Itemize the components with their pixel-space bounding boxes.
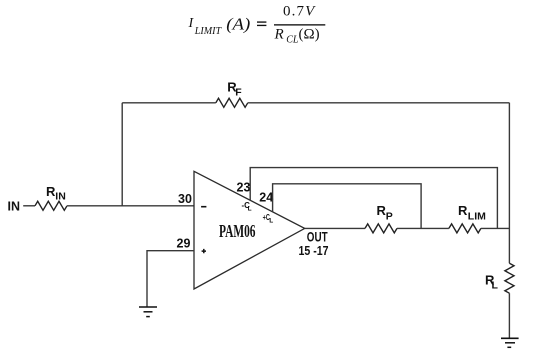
svg-text:L: L — [248, 205, 252, 212]
wire R_IN to inverting input (pin 30) — [67, 205, 194, 207]
svg-text:24: 24 — [259, 191, 273, 205]
svg-text:(A): (A) — [226, 15, 250, 34]
svg-text:15 -17: 15 -17 — [299, 243, 329, 258]
pin -CL label — [242, 201, 252, 213]
formula I_LIMIT(A) = 0.7V / R_CL(Ohm) — [188, 4, 326, 46]
svg-text:23: 23 — [237, 180, 251, 194]
wire pin 23 current-limit sense loop — [250, 168, 497, 229]
wire output segment from apex — [305, 227, 365, 229]
wire R_P to R_LIM — [397, 227, 449, 229]
svg-text:L: L — [492, 280, 499, 292]
svg-text:L: L — [269, 218, 273, 225]
svg-text:(Ω): (Ω) — [299, 27, 320, 43]
wire feedback top right segment — [248, 102, 510, 104]
wire pin 24 current-limit sense loop — [273, 184, 422, 229]
wire feedback vertical from input node — [121, 103, 123, 206]
wire feedback top left segment — [122, 102, 216, 104]
svg-text:P: P — [386, 210, 393, 222]
svg-text:I: I — [188, 16, 195, 31]
svg-text:PAM06: PAM06 — [219, 221, 256, 241]
resistor R_IN — [35, 184, 67, 210]
svg-text:0.7V: 0.7V — [283, 4, 316, 20]
svg-text:CL: CL — [286, 34, 299, 45]
resistor R_LIM — [449, 203, 486, 233]
svg-text:F: F — [235, 86, 242, 98]
ground (output side) — [501, 338, 519, 347]
svg-text:R: R — [458, 203, 468, 218]
svg-text:R: R — [274, 27, 284, 43]
svg-text:29: 29 — [177, 237, 191, 251]
wire pin 29 to ground — [147, 251, 194, 307]
pin +CL label — [263, 213, 274, 225]
svg-text:IN: IN — [8, 200, 21, 214]
resistor R_L (load) — [485, 263, 514, 293]
wire R_L to ground — [508, 293, 510, 338]
op-amp U1 PAM06 — [194, 171, 305, 289]
wire R_LIM to output node — [481, 227, 510, 229]
svg-text:30: 30 — [178, 192, 192, 206]
svg-text:LIMIT: LIMIT — [194, 26, 223, 37]
resistor R_F — [216, 79, 248, 107]
svg-text:LIM: LIM — [468, 210, 486, 222]
ground (input side) — [139, 307, 157, 317]
pin OUT label — [299, 229, 329, 259]
resistor R_P — [365, 203, 397, 233]
wire IN to R_IN — [23, 205, 35, 207]
svg-text:IN: IN — [55, 191, 66, 203]
wire feedback right vertical down to output node — [508, 103, 510, 263]
